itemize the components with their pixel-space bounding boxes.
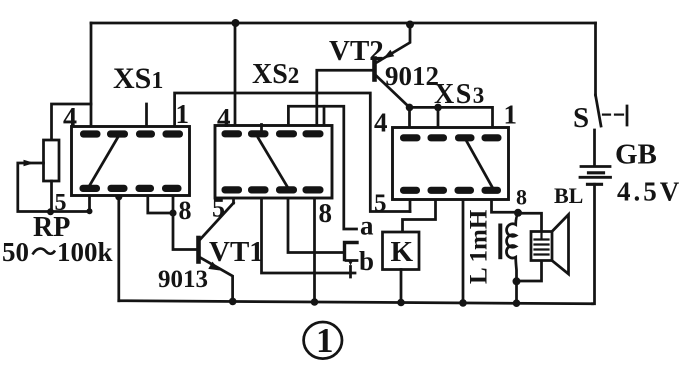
wire VT1 collector	[200, 203, 234, 240]
node rail XS2 feed	[232, 19, 240, 27]
svg-text:9013: 9013	[158, 266, 208, 293]
switch S wire from rail	[594, 23, 597, 95]
wire RP bottom lead	[50, 181, 53, 212]
wire speaker bottom to node B	[517, 261, 542, 282]
svg-text:S: S	[573, 102, 589, 134]
svg-text:4: 4	[374, 108, 388, 138]
wire XS2 pin6 to contact b lower	[262, 193, 356, 273]
svg-text:1: 1	[176, 99, 190, 129]
svg-text:L 1mH: L 1mH	[466, 209, 493, 284]
node VT2 emitter on rail	[406, 21, 414, 29]
wire XS3 pin6 to relay K	[403, 194, 436, 233]
wire XS3 internal diagonal	[467, 141, 494, 189]
inductor core bar	[498, 226, 502, 258]
svg-text:9012: 9012	[385, 61, 439, 91]
wire RP wiper loop	[18, 163, 90, 212]
svg-text:1: 1	[504, 100, 518, 130]
node XS3 pin3	[434, 104, 442, 112]
svg-text:XS3: XS3	[434, 79, 486, 110]
wire node B to bottom rail	[515, 281, 518, 303]
svg-text:8: 8	[516, 185, 527, 210]
contact b upper bar	[346, 259, 357, 262]
wire relay K to bottom rail	[400, 270, 403, 303]
socket XS2 top pin dashes	[222, 130, 324, 137]
battery GB plate2 short	[589, 171, 604, 174]
wire XS2 pin2 to contact a	[288, 106, 356, 229]
socket XS3 top pin dashes	[400, 134, 502, 141]
svg-text:8: 8	[319, 198, 333, 228]
wire left drop from rail to XS1 pin4	[90, 23, 93, 133]
inductor L coil	[506, 214, 518, 282]
svg-text:b: b	[359, 246, 374, 276]
node A speaker-inductor top	[514, 209, 522, 217]
wire VT2 emitter	[377, 25, 411, 63]
speaker BL magnet box	[531, 232, 552, 261]
node XS2 pin8 on rail	[311, 298, 319, 306]
svg-text:8: 8	[179, 196, 192, 225]
resistor RP body	[44, 140, 60, 181]
wire XS2 pin7 to contact b upper	[288, 193, 345, 253]
wire bottom ground rail	[119, 301, 593, 304]
arrow RP wiper head	[24, 160, 35, 166]
svg-text:5: 5	[212, 194, 225, 223]
node RP bottom junction	[47, 208, 54, 215]
wire XS3 pin8 to node A	[492, 194, 519, 212]
socket XS1 bottom pin dashes	[80, 185, 182, 192]
wire XS2 pin5 stub	[232, 190, 235, 203]
battery GB plate1 long	[581, 165, 610, 168]
wire stub to XS1 pin3 dash	[145, 104, 148, 133]
node speaker branch on rail	[513, 299, 521, 307]
wire XS1 pin7 stub	[148, 193, 173, 213]
svg-text:BL: BL	[554, 183, 583, 208]
speaker coil stripes	[535, 233, 549, 255]
contact b lower tick	[349, 267, 352, 278]
svg-text:100k: 100k	[57, 237, 113, 267]
arrow VT2 emitter head	[383, 50, 394, 59]
wire top supply rail	[91, 22, 596, 25]
svg-text:1: 1	[316, 321, 334, 360]
wire VT1 emitter	[200, 258, 233, 302]
wire RP top feed	[52, 104, 92, 141]
node XS3 pin7 on rail	[459, 299, 467, 307]
switch S actuator dashes	[603, 113, 623, 115]
wire XS1 pin1 to XS3 pin5	[175, 93, 410, 212]
wire XS1 pin5 stub	[88, 189, 91, 212]
socket XS1 top pin dashes	[80, 130, 183, 137]
wire XS3 pin3 stub	[437, 107, 440, 138]
wire XS2 internal diagonal	[258, 138, 287, 187]
wire battery to bottom rail	[593, 184, 595, 303]
svg-text:4.5V: 4.5V	[617, 177, 682, 207]
node VT1 emitter on rail	[229, 298, 237, 306]
node XS3 pin4	[406, 104, 414, 112]
svg-text:a: a	[360, 211, 374, 241]
node B speaker-inductor bottom	[513, 277, 521, 285]
wire XS1 pin6 drop to bottom rail	[117, 193, 120, 301]
symbol circled figure number 1	[304, 322, 342, 359]
arrow contact b tip	[348, 260, 354, 266]
wire XS1 pin8 to VT1 base	[173, 193, 197, 250]
wire switch to battery	[593, 130, 596, 166]
wire XS2 pin8 drop to bottom rail	[313, 193, 316, 302]
switch S blade	[596, 95, 602, 126]
svg-text:4: 4	[63, 103, 77, 134]
wire XS3 pin7 drop to bottom rail	[462, 194, 465, 303]
wire XS1 internal diagonal	[89, 137, 118, 187]
svg-text:XS2: XS2	[252, 59, 299, 90]
contact b upper bracket	[345, 243, 358, 260]
battery GB plate3 long	[580, 176, 611, 179]
wire XS2 pin1 riser to VT2 base	[317, 70, 372, 133]
switch S actuator bar	[626, 106, 629, 125]
svg-text:VT1: VT1	[209, 236, 264, 268]
node pins 7-8 junction	[169, 209, 176, 216]
svg-text:4: 4	[217, 103, 231, 133]
wire VT2 collector	[377, 76, 410, 107]
node relay K on rail	[397, 299, 405, 307]
wire XS2 pin1 second stub	[323, 106, 326, 126]
socket XS2 box	[215, 126, 332, 199]
wire rail drop to XS2 pin4	[234, 23, 237, 133]
transistor Q VT1 base bar	[196, 238, 201, 262]
svg-text:50: 50	[2, 237, 29, 267]
node XS1 pin6	[115, 193, 122, 200]
socket XS1 box	[72, 127, 190, 196]
svg-text:VT2: VT2	[329, 35, 384, 67]
wire XS3 top bus	[410, 107, 493, 138]
wire XS3 pin4 stub	[408, 107, 411, 138]
battery GB plate4 short	[588, 183, 602, 186]
wire XS2 pin2 unused tick	[260, 125, 263, 133]
svg-text:5: 5	[374, 190, 387, 217]
svg-text:K: K	[391, 236, 414, 268]
svg-text:GB: GB	[615, 139, 657, 171]
arrow VT1 emitter head	[208, 262, 220, 271]
socket XS2 bottom pin dashes	[222, 186, 324, 193]
socket XS3 bottom pin dashes	[400, 187, 501, 194]
svg-text:5: 5	[55, 190, 67, 216]
relay K box	[383, 232, 420, 270]
socket XS3 box	[393, 128, 509, 200]
wire node A to speaker top	[518, 213, 542, 231]
node RP pin5 junction	[87, 208, 93, 214]
transistor Q VT2 base bar	[372, 59, 377, 80]
wire XS3 pin5 stub	[409, 192, 412, 212]
speaker BL horn	[552, 215, 569, 275]
